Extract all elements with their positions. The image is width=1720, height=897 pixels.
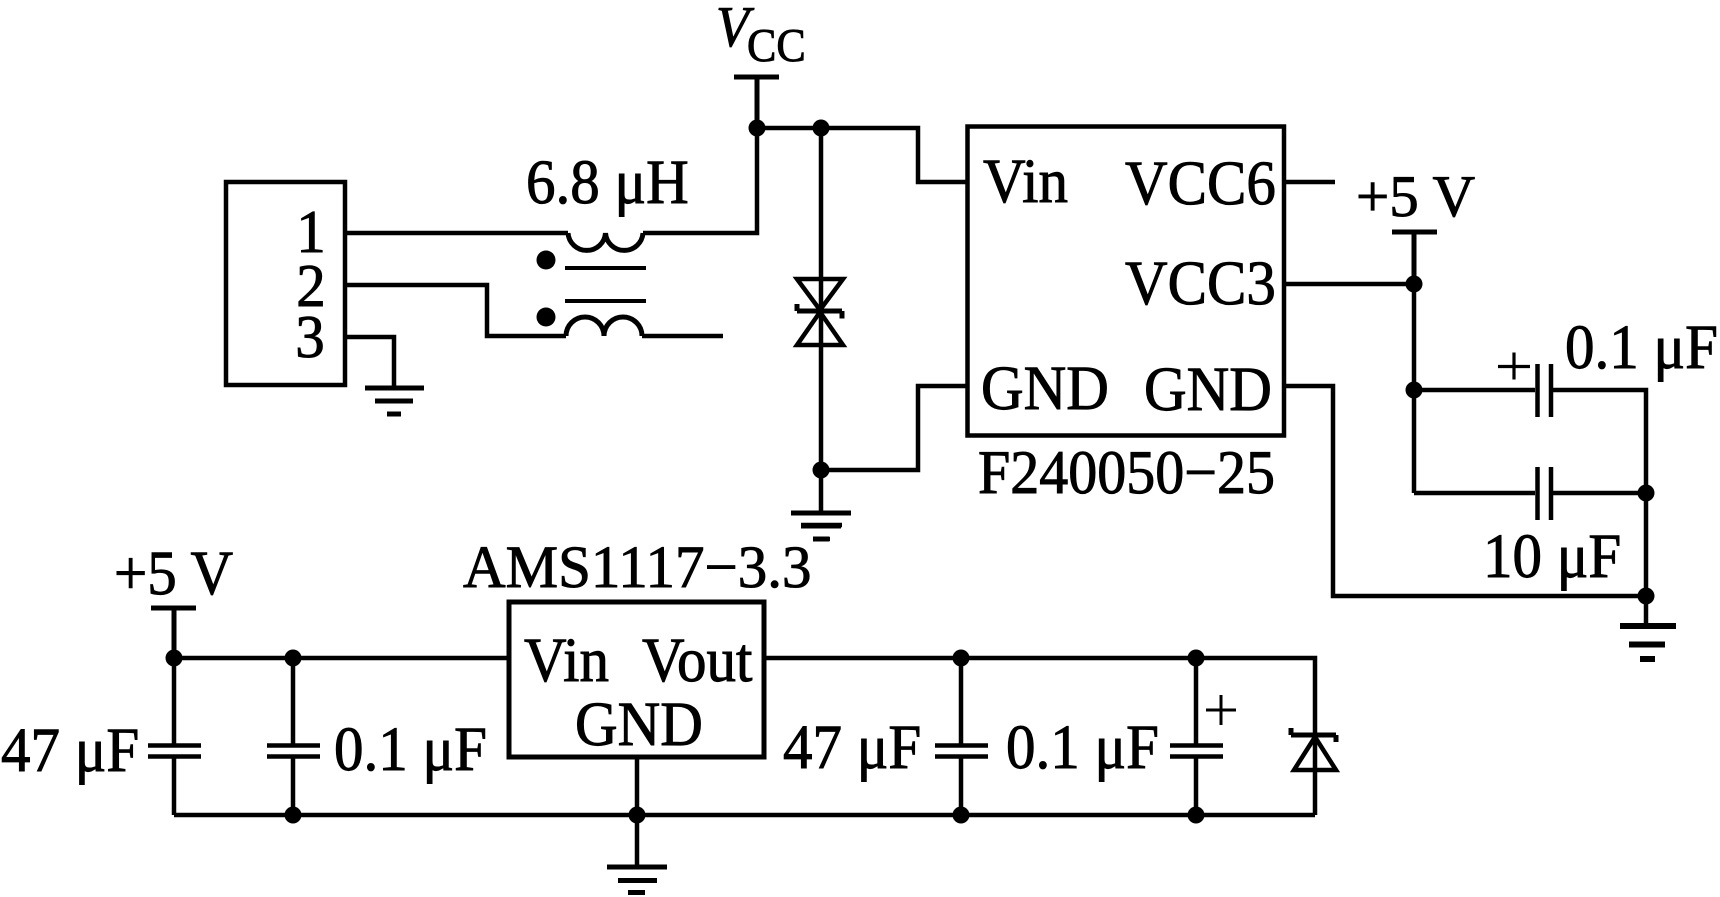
zener diode D2 bar (1291, 728, 1336, 742)
wire choke bottom output (642, 334, 723, 339)
junction TVS top (813, 120, 830, 137)
plus sign 0.1uF (1498, 353, 1530, 380)
junction C3 top (953, 650, 970, 667)
capacitor C4 0.1uF polarized (1170, 658, 1223, 815)
svg-text:0.1 μF: 0.1 μF (334, 713, 487, 784)
junction C4 bottom (1188, 807, 1205, 824)
wire TVS top lead (819, 128, 824, 470)
junction TVS bottom (813, 462, 830, 479)
junction C2 top (285, 650, 302, 667)
svg-text:3: 3 (295, 302, 325, 370)
wire +5V node down (1412, 284, 1417, 493)
inductor L1 core (565, 268, 646, 301)
junction GND rail (629, 807, 646, 824)
wire pin1 to choke (345, 231, 568, 236)
wire pin3 to ground (345, 337, 394, 386)
svg-text:GND: GND (575, 688, 703, 759)
stray marks above label (801, 525, 842, 539)
junction +5V rail (166, 650, 183, 667)
svg-text:AMS1117−3.3: AMS1117−3.3 (463, 533, 812, 600)
wire to ground right (1644, 596, 1649, 626)
ground pin3 (365, 388, 424, 414)
svg-text:Vin: Vin (983, 145, 1068, 216)
capacitor 0.1uF plates (1538, 364, 1552, 417)
wire GND bus right (1284, 386, 1646, 596)
junction C2 bottom (285, 807, 302, 824)
ground TVS (791, 513, 851, 539)
capacitor C1 47uF (148, 658, 201, 815)
svg-text:0.1 μF: 0.1 μF (1006, 711, 1159, 782)
wire row1 right (1553, 390, 1646, 596)
Vcc net label (716, 0, 806, 72)
svg-text:GND: GND (981, 352, 1109, 423)
junction cap row1 left (1406, 382, 1423, 399)
junction VCC3 node (1406, 276, 1423, 293)
output rail (764, 658, 1315, 733)
svg-text:Vin: Vin (524, 624, 609, 695)
ground right (1620, 626, 1676, 659)
wire TVS to IC GND pin (821, 386, 967, 470)
wire Vcc node to Vin pin (757, 128, 967, 182)
svg-text:CC: CC (747, 19, 806, 71)
svg-text:47 μF: 47 μF (1, 714, 139, 785)
connector J1 (226, 182, 345, 385)
ground rail bottom (174, 813, 1315, 818)
Vcc power bar (734, 77, 779, 128)
junction GND bus (1638, 588, 1655, 605)
wire zener bottom lead (1313, 733, 1318, 815)
polarity dot winding 1 (537, 251, 556, 270)
svg-text:10 μF: 10 μF (1483, 520, 1621, 591)
junction C3 bottom (953, 807, 970, 824)
regulator U2 AMS1117 box (509, 602, 764, 757)
plus sign C4 (1206, 695, 1236, 725)
TVS diode D1 top triangle (797, 279, 843, 310)
wire pin2 to choke (345, 285, 566, 336)
svg-text:+5 V: +5 V (114, 537, 233, 608)
IC U1 F240050-25 box (968, 127, 1285, 436)
+5V power bar bottom (151, 608, 196, 658)
ground AMS (607, 867, 667, 893)
wire GND pin to rail (635, 757, 640, 815)
capacitor C3 47uF (935, 658, 988, 815)
capacitor C2 0.1uF (267, 658, 320, 815)
polarity dot winding 2 (537, 308, 556, 327)
svg-text:F240050−25: F240050−25 (978, 437, 1275, 507)
input rail (174, 656, 509, 661)
capacitor 10uF plates (1538, 467, 1552, 520)
inductor L1 winding 2 (566, 317, 642, 336)
svg-text:6.8 μH: 6.8 μH (526, 146, 689, 217)
svg-text:Vout: Vout (642, 624, 753, 695)
zener diode D2 triangle (1294, 737, 1336, 770)
wire VCC3 to +5V node (1284, 282, 1414, 287)
junction row2 right (1638, 485, 1655, 502)
wire TVS node to ground (819, 470, 824, 513)
wire row2 right (1553, 491, 1646, 496)
wire VCC6 stub (1284, 180, 1335, 185)
svg-text:VCC3: VCC3 (1125, 247, 1276, 318)
svg-text:0.1 μF: 0.1 μF (1565, 311, 1718, 382)
inductor L1 winding 1 (568, 233, 643, 250)
svg-text:VCC6: VCC6 (1125, 147, 1276, 218)
wire choke to Vcc node (643, 128, 757, 233)
junction Vcc node (749, 120, 766, 137)
+5V power bar top (1392, 232, 1437, 284)
TVS diode D1 bottom triangle (797, 312, 843, 345)
svg-text:+5 V: +5 V (1356, 163, 1475, 229)
wire row1 left (1414, 388, 1535, 393)
TVS diode D1 bar (797, 304, 842, 319)
svg-text:GND: GND (1144, 353, 1272, 424)
wire row2 left (1414, 491, 1535, 496)
svg-text:47 μF: 47 μF (783, 711, 921, 782)
wire to ground AMS (635, 815, 640, 865)
junction C4 top (1188, 650, 1205, 667)
